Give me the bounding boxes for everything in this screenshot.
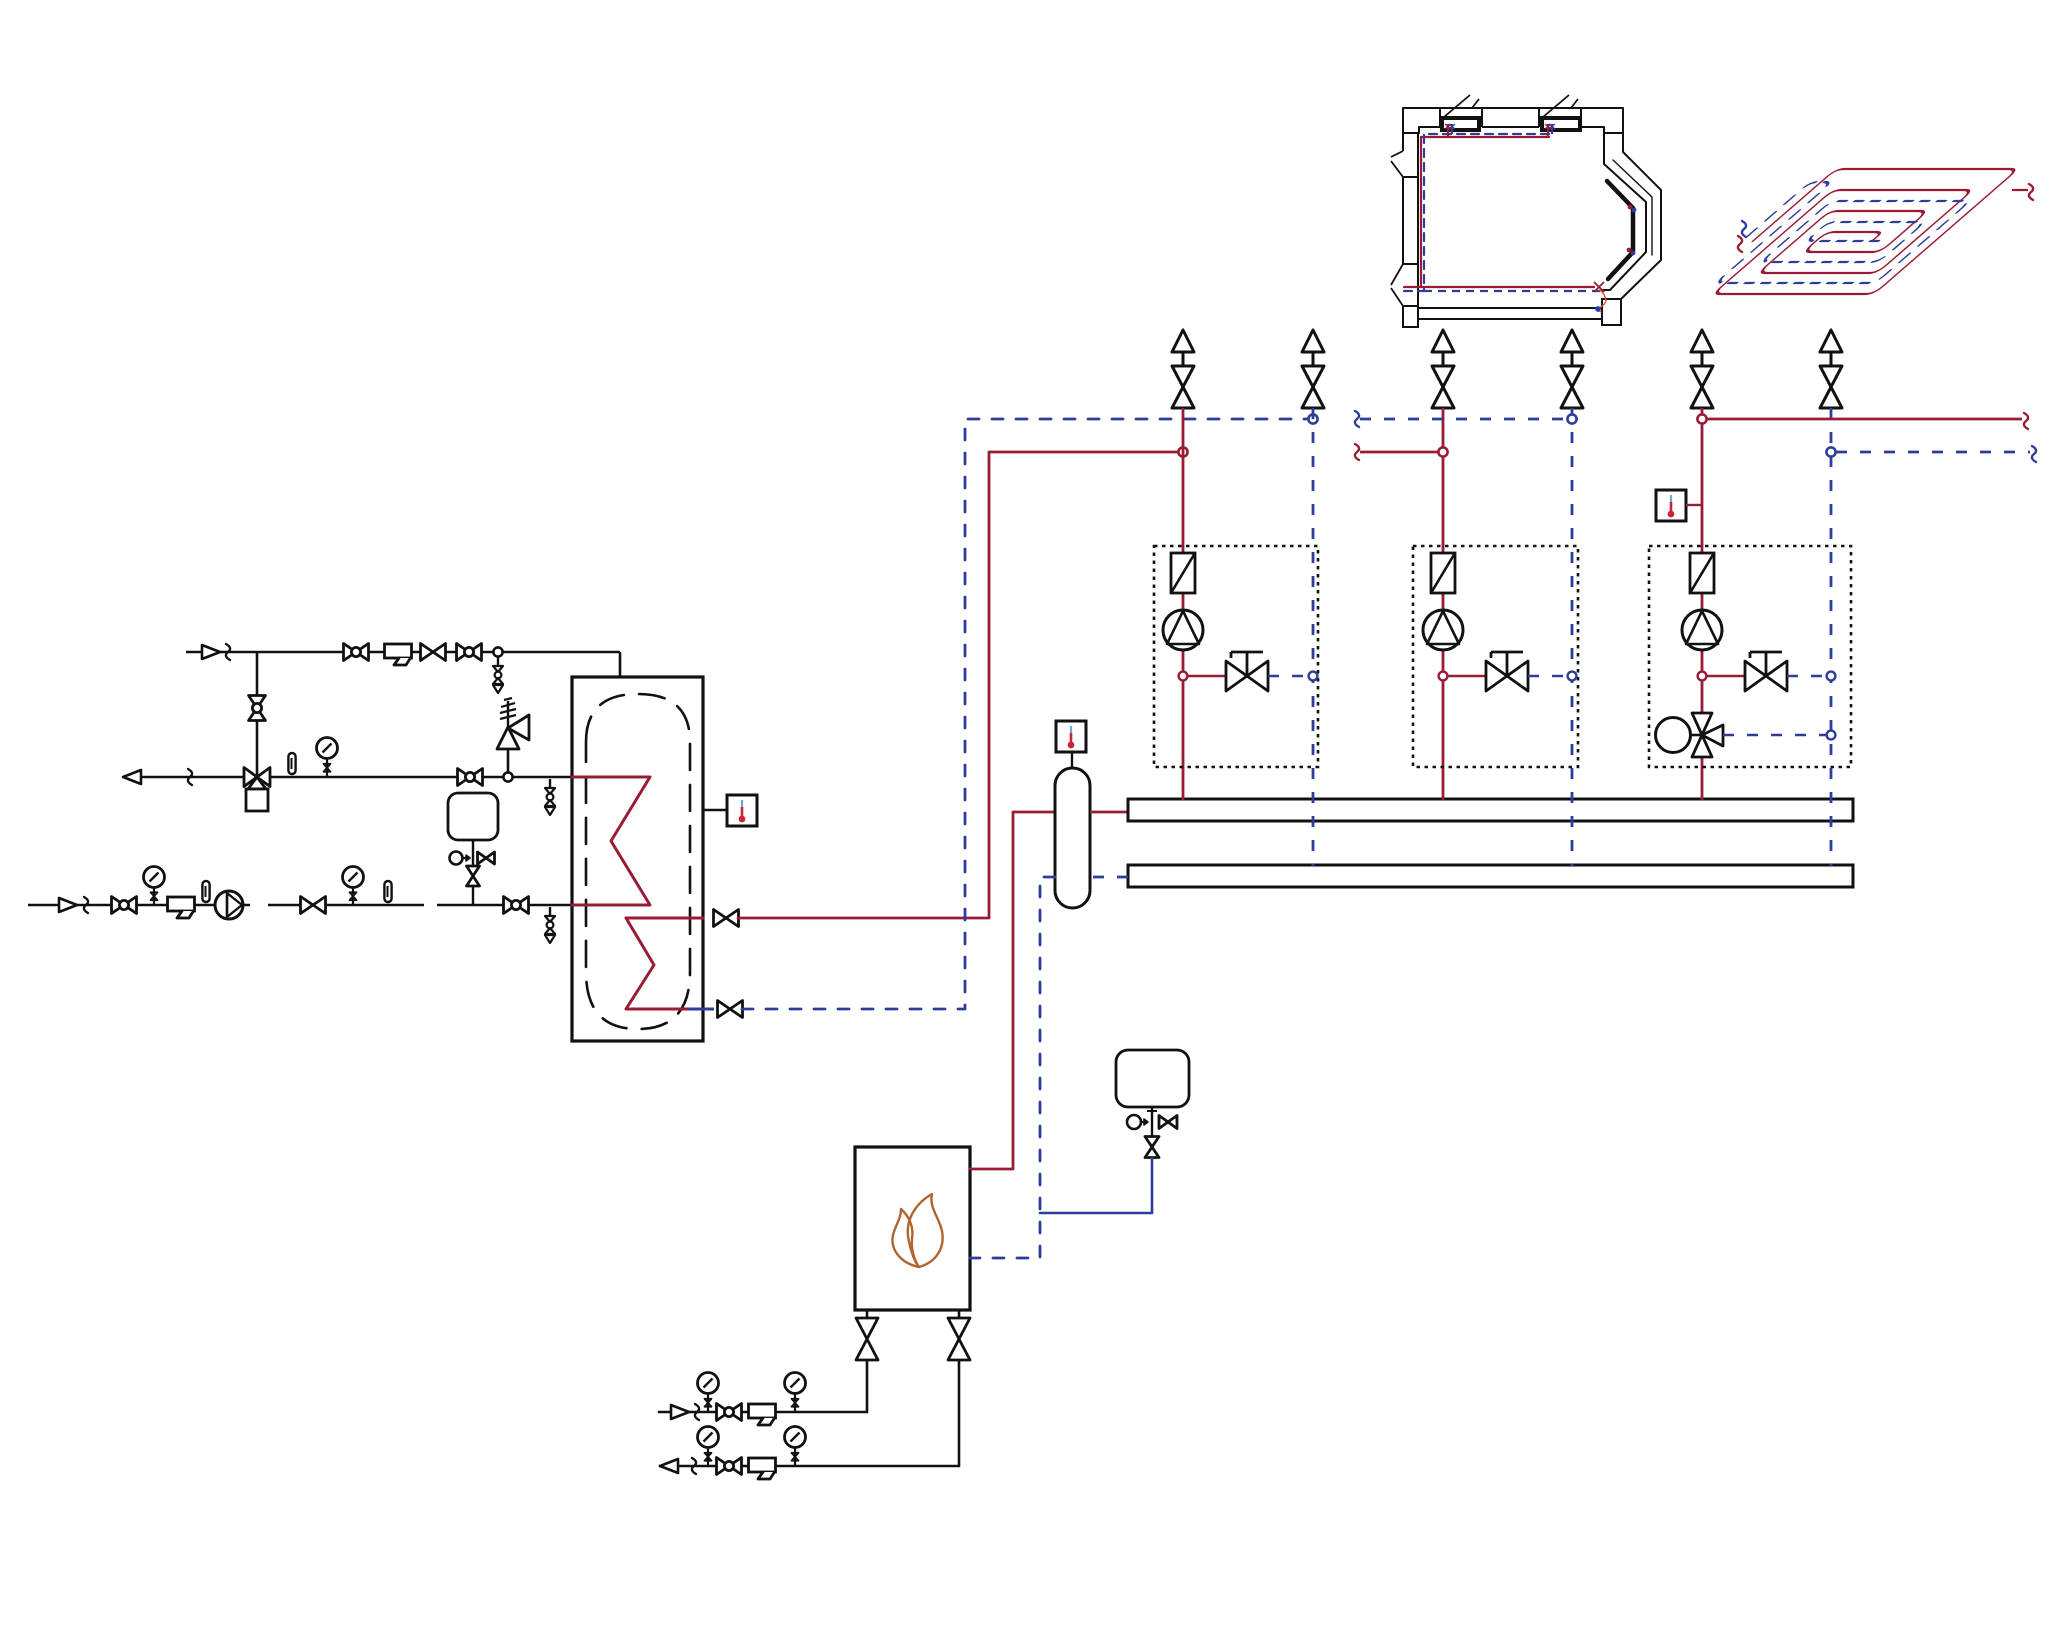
wire tank tbox link: [703, 809, 727, 811]
plan bottom wall: [1418, 307, 1602, 309]
window swing w2: [1543, 95, 1569, 117]
supply manifold: [1128, 799, 1853, 821]
wire boiler-loading line: [28, 904, 250, 907]
pipe break c3 red: [2024, 413, 2028, 429]
wire riser3 red: [1701, 408, 1704, 800]
air vent AV4: [1561, 330, 1583, 352]
pump P4: [1682, 610, 1722, 650]
control valve CTV3: [1745, 661, 1766, 691]
plan left wall lower splay: [1391, 264, 1403, 285]
node J4 blue: [1308, 414, 1317, 423]
node J1: [493, 647, 502, 656]
wire riser2 blue dashed: [1571, 408, 1574, 866]
wire EV2 stem: [1151, 1107, 1153, 1137]
bay connector a: [1628, 205, 1632, 209]
thermometer box riser3: [1656, 490, 1686, 521]
spiral red break: [2029, 184, 2033, 200]
valve V3 ball: [457, 644, 470, 661]
plan top wall piers: [1439, 108, 1441, 127]
wire cold-water top line: [186, 651, 620, 654]
air vent AV5: [1691, 330, 1713, 352]
drain D1: [497, 657, 499, 666]
arrow hot water outlet: [123, 770, 141, 784]
strainer F1: [385, 644, 412, 658]
wire hot-water line: [141, 776, 572, 779]
valve V14 small: [1145, 1137, 1159, 1148]
pressure gauge PG7: [785, 1427, 806, 1448]
spiral red break2: [1738, 236, 1742, 252]
node J-g2 blue: [1568, 672, 1577, 681]
wire riser2 red: [1442, 408, 1445, 800]
node J-g3 red: [1698, 672, 1707, 681]
valve V8 ball: [504, 897, 517, 914]
plan left wall outer: [1402, 133, 1404, 151]
strainer F3: [749, 1404, 776, 1418]
wire separator to manifold red: [1090, 811, 1128, 814]
hydraulic separator HS1: [1055, 768, 1090, 908]
tank coil upper: [572, 777, 650, 905]
boiler body: [855, 1147, 970, 1310]
node J2: [503, 772, 512, 781]
air vent AV2: [1302, 330, 1324, 352]
valve V5 ball: [458, 769, 471, 786]
bay connector b: [1627, 248, 1631, 252]
air vent AV3: [1432, 330, 1454, 352]
radiator R1: [1442, 118, 1479, 130]
pressure gauge PG4: [698, 1373, 719, 1394]
valve V17 ball: [717, 1404, 730, 1421]
plan top-left block: [1403, 108, 1440, 133]
valve V15 boiler: [856, 1318, 878, 1339]
spiral blue break: [1742, 221, 1746, 237]
pump group box G3: [1649, 546, 1851, 767]
valve V13 small: [1159, 1116, 1168, 1129]
wire tank top drop: [619, 652, 622, 678]
plan loop red: [1404, 137, 1549, 287]
wire riser3 blue dashed: [1830, 408, 1833, 866]
wire g2 blue stub: [1528, 675, 1568, 678]
tank coil lower: [626, 918, 703, 1009]
storage tank body: [572, 677, 703, 1041]
wire separator tbox stem: [1071, 752, 1073, 768]
node J8 blue: [1826, 447, 1835, 456]
check valve CV3: [1690, 553, 1714, 593]
wire riser1 red: [1182, 408, 1185, 800]
boiler flame: [892, 1209, 919, 1267]
plan left pier: [1403, 177, 1418, 264]
plan left bottom block: [1403, 306, 1418, 327]
arrow loading inlet: [59, 898, 77, 912]
wire branch down: [256, 652, 259, 777]
plan top wall outer: [1403, 107, 1623, 109]
arrow gas1: [671, 1405, 689, 1419]
pipe break c2 blue: [1355, 411, 1359, 427]
wire return manifold stub blue: [1090, 876, 1128, 879]
separator thermometer box: [1056, 721, 1086, 752]
rad1 stubs: [1447, 124, 1449, 137]
pipe break loading: [84, 897, 88, 913]
wire g2 red stub: [1447, 675, 1486, 678]
valve V18 ball: [717, 1458, 730, 1475]
plan loop red bottom: [1421, 286, 1595, 288]
node J5 red: [1438, 447, 1447, 456]
wire boiler pipe left: [659, 1310, 867, 1412]
wire EV2 blue solid: [1040, 1157, 1152, 1213]
return manifold: [1128, 865, 1853, 887]
arrow gas2: [660, 1459, 678, 1473]
node J9 blue: [1827, 731, 1836, 740]
air vent AV1: [1172, 330, 1194, 352]
plan top wall inner: [1419, 126, 1440, 128]
mixing valve MV3: [1656, 718, 1691, 753]
wire tank return blue dashed: [742, 419, 1308, 1009]
plan loop blue bottom: [1424, 290, 1600, 292]
node J-g3 blue: [1827, 672, 1836, 681]
pressure gauge PG6: [698, 1427, 719, 1448]
pipe break top line: [226, 644, 230, 660]
pressure gauge PG5: [785, 1373, 806, 1394]
check valve CV2: [1431, 553, 1455, 593]
valve V16 boiler: [948, 1318, 970, 1339]
plan bay outer: [1621, 133, 1661, 299]
wire c3 red link: [1707, 418, 2022, 421]
pump group box G1: [1154, 546, 1318, 767]
tank inner vessel dashed: [586, 694, 690, 1029]
valve V4 ball: [249, 696, 266, 709]
valve V7: [301, 897, 314, 914]
check valve CV1: [1171, 553, 1195, 593]
wire g1 blue stub: [1268, 675, 1309, 678]
radiator R3 bay: [1607, 181, 1633, 279]
wire boiler-loading line c: [437, 904, 572, 907]
tank thermometer box: [727, 795, 757, 826]
expansion vessel EV2: [1116, 1050, 1189, 1107]
plan loop blue: [1404, 134, 1552, 291]
wire boiler-loading line b: [268, 904, 424, 907]
thermometer T1: [288, 753, 295, 774]
expansion vessel EV1: [448, 793, 498, 840]
pressure gauge PG3: [343, 867, 364, 888]
valve V12 return: [718, 1001, 731, 1018]
pressure gauge PG1: [317, 738, 338, 759]
pump P3: [1423, 610, 1463, 650]
pressure gauge PG2: [144, 867, 165, 888]
pipe break c2 red: [1355, 444, 1359, 460]
valve V10 small: [467, 866, 480, 876]
arrow cold water inlet: [202, 645, 220, 659]
control valve CTV2: [1486, 661, 1507, 691]
wire EV1 stem: [472, 840, 474, 905]
node J3 red: [1178, 447, 1187, 456]
node J7 red: [1697, 414, 1706, 423]
node J-g2 red: [1439, 672, 1448, 681]
plan left wall inner: [1417, 133, 1419, 306]
node J-g1 blue: [1309, 672, 1318, 681]
strainer F2: [168, 897, 195, 911]
pipe break gas1: [695, 1404, 699, 1420]
plan bay inner: [1602, 133, 1646, 290]
air vent AV6: [1820, 330, 1842, 352]
pump group box G2: [1413, 546, 1578, 767]
thermometer T3: [384, 881, 391, 902]
pipe break c3 blue: [2032, 446, 2036, 462]
wire g1 red stub: [1187, 675, 1226, 678]
plan valve mark: [1594, 282, 1604, 292]
plan top-right block: [1581, 108, 1623, 133]
node J6 blue: [1567, 414, 1576, 423]
window swing w1: [1444, 95, 1470, 117]
control valve CTV1: [1226, 661, 1247, 691]
valve V11 supply: [714, 910, 727, 927]
rad2 stubs: [1547, 124, 1549, 137]
wire c2 blue link: [1360, 418, 1567, 421]
wire g3 red stub: [1706, 675, 1745, 678]
wire tank supply red: [738, 452, 1178, 918]
plan riser curve: [1599, 290, 1606, 312]
wire mv3 blue stub: [1723, 734, 1826, 737]
wire separator return blue: [970, 877, 1055, 1258]
radiator R2: [1542, 118, 1580, 130]
wire tbox3 link: [1686, 504, 1702, 506]
valve V9 small: [478, 852, 487, 864]
plan bay glazing: [1613, 160, 1652, 255]
valve V2: [421, 644, 434, 661]
strainer F4: [749, 1458, 776, 1472]
valve V1 ball: [344, 644, 357, 661]
spiral red tail: [2012, 189, 2028, 191]
floor heating spiral: [1681, 169, 2018, 294]
thermometer T2: [202, 881, 209, 902]
wire boiler supply red: [970, 812, 1055, 1169]
plan riser dot: [1596, 307, 1600, 311]
three-way mixing valve TV1: [244, 768, 257, 787]
safety valve SV1: [507, 749, 510, 772]
tank coil lower blue stub: [688, 1008, 714, 1011]
fill unit circle: [450, 852, 463, 865]
wire c2 red link: [1360, 451, 1438, 454]
EV2 fill circle: [1127, 1115, 1141, 1129]
pipe break gas2: [692, 1458, 696, 1474]
wire riser1 blue dashed: [1312, 408, 1315, 866]
pump P1: [215, 891, 243, 919]
valve V6 ball: [112, 897, 125, 914]
wire c3 blue link: [1836, 451, 2030, 454]
pump P2: [1163, 610, 1203, 650]
node J-g1 red: [1179, 672, 1188, 681]
plan bay block: [1602, 299, 1621, 325]
drain D3: [549, 907, 551, 916]
wire boiler pipe right: [660, 1310, 959, 1466]
drain D2: [549, 779, 551, 788]
wire g3 blue stub: [1787, 675, 1827, 678]
pipe break hot-water: [188, 769, 192, 785]
